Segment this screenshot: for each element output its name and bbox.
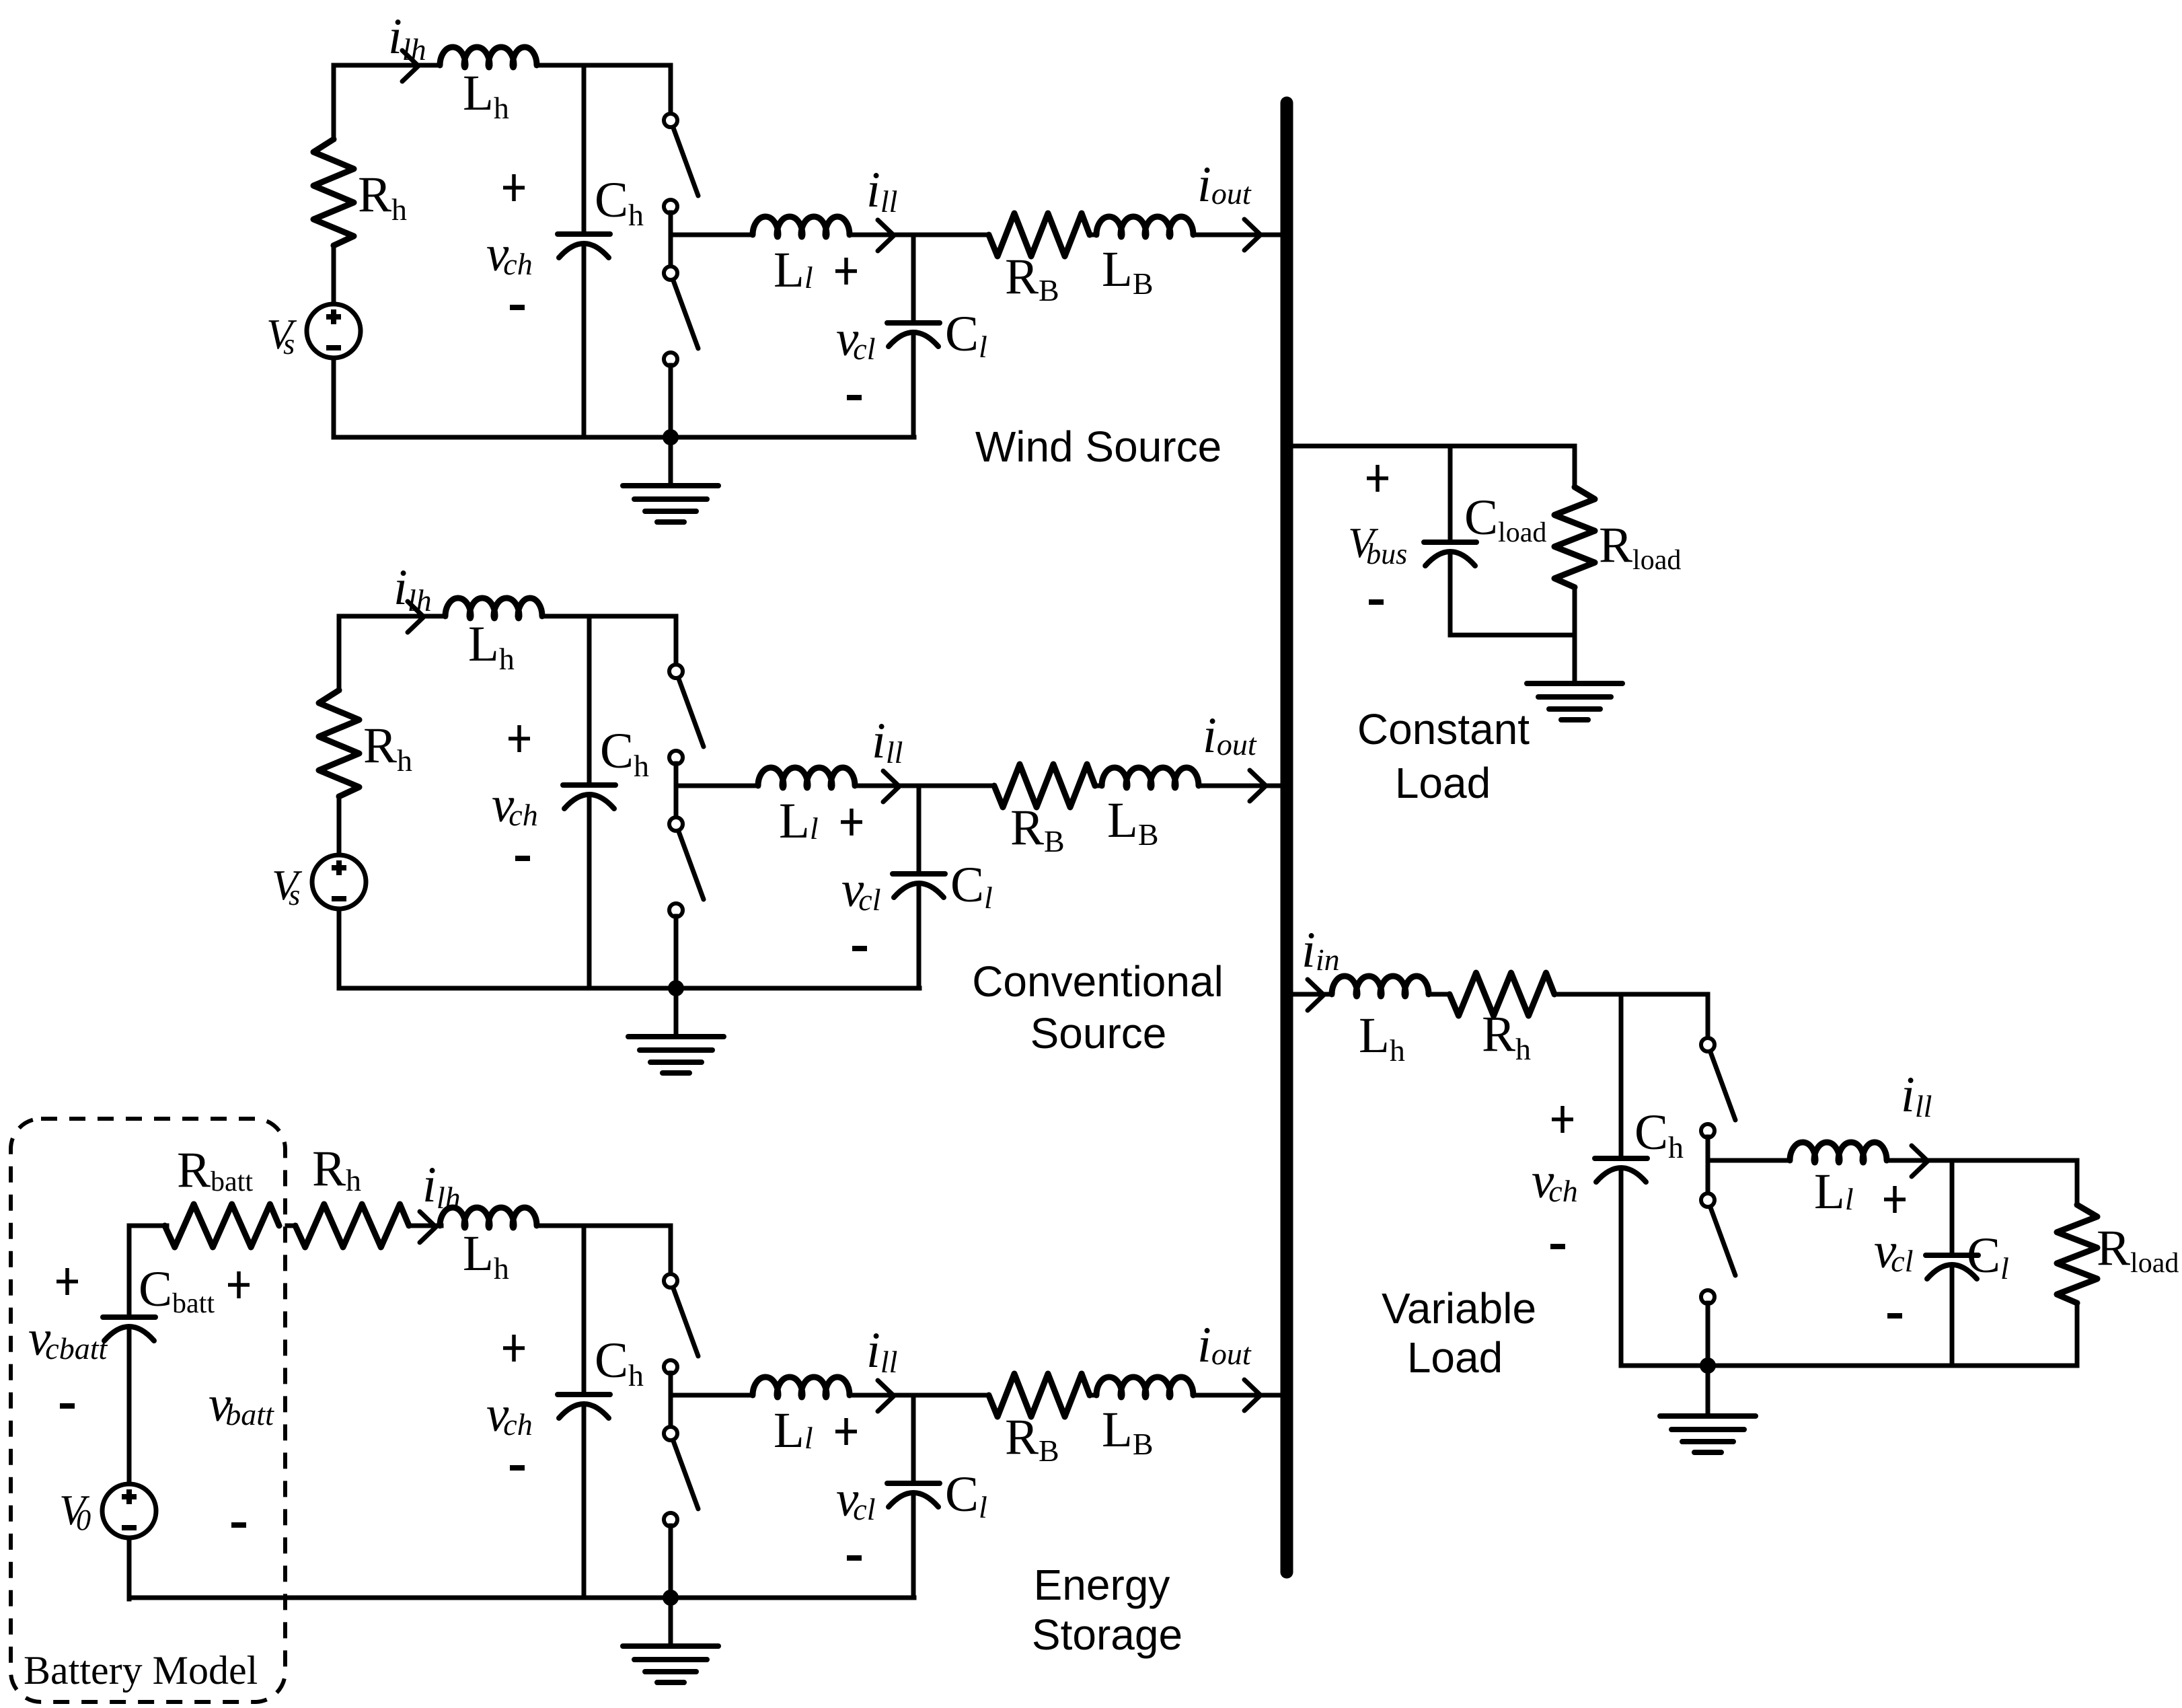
plus vch (wind) <box>503 174 525 201</box>
source V0 <box>102 1484 156 1538</box>
svg-text:Variable: Variable <box>1382 1284 1536 1333</box>
wire <box>1429 992 1450 997</box>
ground (constant load) <box>1527 681 1622 686</box>
wire Cload top <box>1448 446 1453 540</box>
minus vch (variable) <box>1550 1244 1565 1249</box>
wire switch top (variable) <box>1706 994 1710 1039</box>
wire iout to bus (wind) <box>1196 233 1282 237</box>
inductor LB (energy) <box>1096 1377 1193 1397</box>
arrow ilh (wind) <box>402 50 418 81</box>
capacitor Ch (energy) <box>558 1392 610 1397</box>
capacitor Ch (wind) <box>558 231 610 237</box>
switch S1 bottom contact (wind) <box>664 200 677 213</box>
plus vch (conventional) <box>509 725 530 752</box>
switch S1 top contact (conventional) <box>669 665 683 678</box>
inductor Lh (variable) <box>1332 976 1429 996</box>
wire switch to ground node (energy) <box>669 1526 673 1598</box>
wire ground stub (constant) <box>1573 635 1577 683</box>
wire left top (wind) <box>332 65 336 139</box>
switch S1 blade (wind) <box>673 128 698 196</box>
inductor Lh (wind) <box>440 47 537 67</box>
switch S1 top contact (variable) <box>1701 1038 1715 1051</box>
inductor LB (conventional) <box>1102 768 1199 788</box>
wire bottom (wind) <box>334 435 914 440</box>
wire to switch (variable) <box>1554 992 1708 997</box>
wire ground stub (variable) <box>1706 1366 1710 1416</box>
resistor RB (energy) <box>989 1374 1090 1417</box>
resistor Rload (variable) <box>2057 1205 2097 1303</box>
wire ground stub (wind) <box>669 437 673 486</box>
wire iout to bus (energy) <box>1196 1393 1282 1398</box>
wire Ch top (variable) <box>1619 994 1624 1156</box>
arrow ill (energy) <box>878 1380 894 1411</box>
arrow ill (variable) <box>1912 1146 1928 1177</box>
wire switch bottom (variable) <box>1706 1303 1710 1366</box>
wire to switch S1 (wind) <box>669 65 673 114</box>
inductor Ll (variable) <box>1790 1142 1887 1162</box>
resistor Rh (wind) <box>313 139 354 246</box>
ground (energy) <box>623 1643 718 1649</box>
capacitor Cl (energy) <box>887 1481 940 1486</box>
plus vbatt <box>228 1271 250 1298</box>
wire bus to variable load <box>1293 992 1332 997</box>
wire Ch bottom (wind) <box>582 244 587 437</box>
minus vch (conventional) <box>515 856 530 861</box>
switch S1 blade (energy) <box>673 1288 698 1356</box>
wire Cl bottom (conventional) <box>917 883 921 988</box>
minus vcl (wind) <box>847 395 862 400</box>
switch S2 bottom contact (wind) <box>664 352 677 366</box>
arrow iout (wind) <box>1244 219 1261 250</box>
wire mid (energy) <box>850 1393 989 1398</box>
svg-text:Source: Source <box>1030 1009 1167 1057</box>
inductor Ll (energy) <box>753 1377 850 1397</box>
wire mid left (conventional) <box>676 784 758 788</box>
minus vch (wind) <box>510 305 525 310</box>
minus vcbatt <box>60 1403 75 1409</box>
svg-text:Storage: Storage <box>1032 1610 1182 1659</box>
inductor Ll (wind) <box>753 217 850 237</box>
wire Cl top (conventional) <box>917 786 921 872</box>
arrow ilh (conventional) <box>408 601 424 632</box>
capacitor Cl (conventional) <box>893 871 945 877</box>
wire mid left (wind) <box>671 233 753 237</box>
resistor Rh (energy) <box>295 1204 409 1247</box>
resistor Rh (variable) <box>1450 973 1554 1016</box>
wire constant load bottom <box>1450 633 1575 638</box>
inductor LB (wind) <box>1096 217 1193 237</box>
minus vcl (conventional) <box>852 946 867 951</box>
wire top left (wind) <box>334 63 440 68</box>
svg-text:Constant: Constant <box>1357 705 1530 753</box>
wire Rload bottom (variable) <box>2075 1303 2080 1366</box>
wire (energy) <box>1090 1393 1096 1398</box>
arrow ilh (energy) <box>420 1212 436 1242</box>
resistor RB (wind) <box>989 213 1090 256</box>
switch S2 blade (wind) <box>673 281 698 348</box>
wire Cl top (wind) <box>911 235 916 321</box>
wire mid (wind) <box>850 233 989 237</box>
capacitor Ch (conventional) <box>563 782 615 788</box>
capacitor Cl (wind) <box>887 320 940 326</box>
switch S1 top contact (energy) <box>664 1274 677 1288</box>
switch S2 blade (energy) <box>673 1441 698 1509</box>
wire ground stub (conventional) <box>674 988 679 1037</box>
minus Vbus <box>1369 599 1384 605</box>
wire (wind) <box>1090 233 1096 237</box>
junction ground node (wind) <box>663 429 679 445</box>
switch S2 top contact (conventional) <box>669 817 683 831</box>
switch S1 bottom contact (conventional) <box>669 751 683 764</box>
switch S1 bottom contact (energy) <box>664 1360 677 1374</box>
wire Vs to bottom (wind) <box>332 358 336 437</box>
plus Vbus <box>1367 465 1388 492</box>
svg-text:Load: Load <box>1395 759 1491 807</box>
plus vch (variable) <box>1552 1106 1573 1133</box>
wire switch to ground node (wind) <box>669 365 673 437</box>
wire mid left (energy) <box>671 1393 753 1398</box>
ground (wind) <box>623 483 718 488</box>
wire <box>287 1224 295 1228</box>
wire (conventional) <box>1095 784 1102 788</box>
wire Ch top (wind) <box>582 65 587 231</box>
ground (conventional) <box>628 1034 724 1039</box>
junction ground node (conventional) <box>668 980 684 996</box>
resistor Rh (conventional) <box>319 690 359 796</box>
energy storage converter <box>334 1208 1282 1682</box>
switch S1 blade (variable) <box>1710 1052 1735 1120</box>
wire Rload bottom (constant) <box>1573 587 1577 635</box>
wire Rh to Vs (conventional) <box>337 796 342 855</box>
wire to switch S1 (energy) <box>669 1226 673 1275</box>
plus vcl (variable) <box>1884 1186 1906 1213</box>
arrow iin <box>1308 979 1324 1010</box>
arrow ill (wind) <box>878 220 894 251</box>
junction ground node (variable) <box>1700 1358 1716 1374</box>
switch S1 blade (conventional) <box>679 679 704 747</box>
switch S1 top contact (wind) <box>664 114 677 127</box>
DC bus <box>1281 103 1293 1572</box>
wire Ch bottom (conventional) <box>587 794 592 988</box>
inductor Lh (energy) <box>440 1208 537 1228</box>
svg-text:Conventional: Conventional <box>972 957 1224 1006</box>
wire Ch top (conventional) <box>587 616 592 782</box>
svg-text:Wind Source: Wind Source <box>975 422 1221 471</box>
wire Cl top (energy) <box>911 1395 916 1481</box>
wire Cbatt top <box>127 1226 132 1315</box>
minus vbatt <box>231 1522 246 1528</box>
switch S2 top contact (energy) <box>664 1427 677 1440</box>
wire mid right (variable) <box>1887 1158 2077 1163</box>
switch S1 bottom contact (variable) <box>1701 1124 1715 1138</box>
switch S2 blade (conventional) <box>679 831 704 899</box>
plus vcbatt <box>57 1268 78 1295</box>
wire left top (conventional) <box>337 616 342 690</box>
switch S2 top contact (variable) <box>1701 1193 1715 1207</box>
wire battery top left <box>129 1224 167 1228</box>
resistor Rload (constant) <box>1554 487 1595 587</box>
arrow iout (conventional) <box>1250 770 1266 801</box>
wire Cl bottom (energy) <box>911 1493 916 1598</box>
wire top (energy) <box>537 1224 671 1228</box>
plus vcl (conventional) <box>841 809 862 836</box>
minus vcl (energy) <box>847 1555 862 1561</box>
svg-text:Battery Model: Battery Model <box>24 1648 258 1693</box>
wire Cbatt to V0 <box>127 1327 132 1484</box>
battery model dashed box <box>11 1119 285 1702</box>
switch S2 blade (variable) <box>1710 1208 1735 1275</box>
source Vs (conventional) <box>312 855 366 909</box>
wire Ch bottom (variable) <box>1619 1168 1624 1366</box>
capacitor Cbatt <box>103 1314 155 1320</box>
wire iout to bus (conventional) <box>1201 784 1287 788</box>
wire mid left (variable) <box>1708 1158 1790 1163</box>
wire bus to constant load <box>1291 444 1575 449</box>
inductor Lh (conventional) <box>445 598 542 618</box>
wire switch to ground node (conventional) <box>674 916 679 988</box>
capacitor Cload <box>1424 540 1476 545</box>
ground (variable load) <box>1660 1413 1756 1419</box>
wire bottom (conventional) <box>339 986 919 991</box>
wind source converter <box>266 9 440 437</box>
wire Cload bottom <box>1448 552 1453 635</box>
wire Cl bottom (variable) <box>1950 1265 1955 1366</box>
wire switch mid (conventional) <box>674 764 679 818</box>
switch S2 top contact (wind) <box>664 266 677 280</box>
wire bottom (variable) <box>1621 1364 2077 1368</box>
switch S2 bottom contact (variable) <box>1701 1290 1715 1304</box>
wire Rload top (variable) <box>2075 1160 2080 1205</box>
svg-text:Energy: Energy <box>1034 1561 1170 1609</box>
plus vcl (wind) <box>835 258 857 285</box>
plus vcl (energy) <box>835 1418 857 1445</box>
plus vch (energy) <box>503 1335 525 1362</box>
wire bottom (energy) <box>334 1596 914 1600</box>
wire top (conventional) <box>542 614 676 619</box>
wire switch mid (energy) <box>669 1373 673 1427</box>
arrow ill (conventional) <box>883 771 899 802</box>
wire switch mid (variable) <box>1706 1137 1710 1193</box>
wire to switch S1 (conventional) <box>674 616 679 665</box>
minus vcl (variable) <box>1887 1313 1902 1319</box>
svg-text:Load: Load <box>1407 1333 1503 1382</box>
wire Cl bottom (wind) <box>911 332 916 437</box>
conventional source converter <box>272 560 445 988</box>
wire Rload top (constant) <box>1573 446 1577 487</box>
wire top left (conventional) <box>339 614 445 619</box>
wire Ch top (energy) <box>582 1226 587 1392</box>
arrow iout (energy) <box>1244 1380 1261 1411</box>
switch S2 bottom contact (energy) <box>664 1513 677 1526</box>
wire Cl top (variable) <box>1950 1160 1955 1253</box>
capacitor Ch (variable) <box>1595 1156 1647 1161</box>
resistor RB (conventional) <box>994 764 1095 807</box>
wire mid (conventional) <box>855 784 994 788</box>
wire battery bottom <box>129 1596 336 1600</box>
source Vs (wind) <box>307 304 361 358</box>
switch S2 bottom contact (conventional) <box>669 903 683 917</box>
wire Rh to Vs (wind) <box>332 246 336 304</box>
wire ground stub (energy) <box>669 1598 673 1646</box>
wire top (wind) <box>537 63 671 68</box>
wire to Lh (energy) <box>409 1224 441 1228</box>
inductor Ll (conventional) <box>758 768 855 788</box>
wire Vs to bottom (conventional) <box>337 909 342 988</box>
wire Ch bottom (energy) <box>582 1404 587 1598</box>
resistor Rbatt <box>165 1204 279 1247</box>
minus vch (energy) <box>510 1465 525 1471</box>
junction ground node (energy) <box>663 1590 679 1606</box>
wire switch mid (wind) <box>669 213 673 267</box>
capacitor Cl (variable) <box>1926 1253 1978 1258</box>
wire V0 to bottom <box>127 1538 132 1599</box>
